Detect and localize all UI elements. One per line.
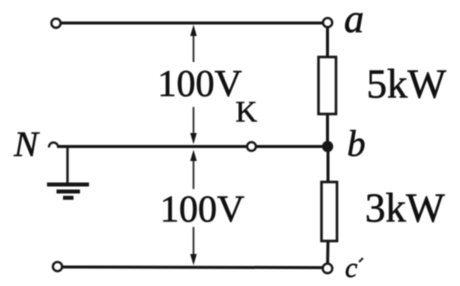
svg-text:100V: 100V <box>160 189 245 231</box>
svg-text:b: b <box>347 124 366 165</box>
svg-text:N: N <box>13 124 40 164</box>
svg-text:5kW: 5kW <box>367 61 447 107</box>
svg-text:c: c <box>345 253 358 284</box>
svg-text:K: K <box>236 96 258 129</box>
svg-text:100V: 100V <box>158 63 243 105</box>
svg-text:a: a <box>344 0 364 41</box>
svg-text:3kW: 3kW <box>365 185 445 231</box>
